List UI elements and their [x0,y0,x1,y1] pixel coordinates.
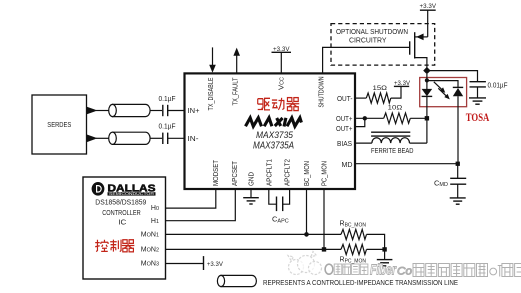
resistor R3 RBC_MON [340,221,367,240]
wire OUT- [356,97,367,99]
wire node down to ferrite [426,118,428,143]
svg-text:+3.3V: +3.3V [207,261,224,268]
svg-text:+3.3V: +3.3V [273,46,290,53]
watermark text band [325,264,333,274]
svg-text:+3.3V: +3.3V [420,3,437,10]
svg-text:OPTIONAL SHUTDOWN: OPTIONAL SHUTDOWN [336,29,408,36]
svg-text:REPRESENTS A CONTROLLED-IMPEDA: REPRESENTS A CONTROLLED-IMPEDANCE TRANSM… [263,280,458,287]
svg-text:RBC_MON: RBC_MON [340,221,367,229]
resistor R2 10 ohm [384,104,411,123]
制 [110,240,121,252]
transmission line T1 [109,104,150,116]
wire OUT+ first [356,117,384,119]
controller U3 DALLAS box [83,177,166,279]
wire IN- from SERDES [87,134,110,142]
驱 [258,99,263,110]
svg-text:+3.3V: +3.3V [394,80,411,87]
op-amp U1 MAX3735 driver box [185,73,356,189]
svg-text:TOSA: TOSA [466,112,490,124]
svg-text:GND: GND [248,172,255,186]
wire SHUTDOWN to gate [323,47,410,73]
svg-text:0.1µF: 0.1µF [159,124,176,131]
svg-text:OUT+: OUT+ [336,116,353,123]
svg-text:MON1: MON1 [141,232,159,239]
ground for C4 [450,198,466,204]
svg-text:10Ω: 10Ω [388,104,403,111]
label 控制器 (controller, red) [95,240,134,252]
optional shutdown circuitry dashed box [331,24,435,66]
label 驱动器 (driver, red) [258,98,299,111]
svg-text:CONTROLLER: CONTROLLER [102,210,141,217]
ground at GND pin [243,189,259,204]
logo MAXIM [246,118,302,127]
svg-text:APCFLT2: APCFLT2 [284,159,291,186]
junction PC_MON [322,247,326,251]
svg-text:MON2: MON2 [141,247,159,254]
wire BIAS [356,142,372,144]
ground for R3 R4 [377,249,393,266]
wire C2 to IN- [168,137,184,139]
svg-text:BIAS: BIAS [337,141,352,148]
logo DALLAS SEMICONDUCTOR [92,182,156,196]
light arrows inside TOSA [434,82,450,100]
wire BC_MON down [306,189,308,234]
ferrite bead FB1 [371,132,414,155]
器 [286,98,299,111]
wire node to bypass cap [427,71,478,82]
legend transmission line symbol [217,275,256,286]
svg-text:TX_FAULT: TX_FAULT [232,77,239,106]
wire PC_MON down [323,189,325,249]
wire ferrite to node [410,142,427,144]
wire IN+ from SERDES [87,107,110,115]
node junction diamond [423,67,430,74]
SERDES block U2 [32,95,87,154]
svg-text:Co: Co [397,266,412,278]
transmission line T2 [109,132,150,144]
svg-text:APCFLT1: APCFLT1 [266,159,273,186]
wire R3 to ground node [367,234,385,249]
wire MON1 [166,233,341,235]
svg-text:RPC_MON: RPC_MON [340,257,367,265]
svg-text:IC: IC [118,219,126,226]
wire T1 to C1 [150,110,162,112]
wire R4 to ground node [367,248,385,250]
svg-text:15Ω: 15Ω [373,85,388,92]
power +3.3V at R1 [394,80,411,87]
svg-text:MD: MD [342,162,353,169]
ground for C3 [469,98,486,104]
capacitor C3 0.01uF [470,82,508,98]
wire R1 to +3.3V [391,86,401,98]
svg-text:IN+: IN+ [188,108,200,115]
capacitor C5 CAPC between APCFLT1/2 [269,189,290,224]
wire T2 to C2 [150,137,162,139]
svg-text:TX_DISABLE: TX_DISABLE [208,77,215,110]
svg-text:PC_MON: PC_MON [322,161,329,186]
器 [122,240,135,252]
svg-text:CIRCUITRY: CIRCUITRY [349,38,387,45]
svg-text:0.01µF: 0.01µF [488,83,508,90]
resistor R1 15 ohm [366,85,391,103]
svg-text:SHUTDOWN: SHUTDOWN [318,77,325,108]
junction MD node [456,162,460,166]
svg-text:MODSET: MODSET [213,159,220,186]
junction OUT+ [363,116,367,120]
svg-text:IN-: IN- [188,136,200,143]
power +3.3V at MON3 [204,256,224,270]
photodiode D2 [453,87,463,163]
svg-text:Fiber: Fiber [370,263,397,279]
power +3.3V at VCC [272,46,292,73]
svg-text:APCSET: APCSET [232,160,239,186]
capacitor C2 0.1uF [159,124,176,144]
wire TX_DISABLE stub with arrow into chip [209,47,216,72]
capacitor C4 CMD [434,164,466,198]
svg-text:VCC: VCC [279,77,286,90]
svg-text:BC_MON: BC_MON [304,161,311,186]
laser diode D1 [422,74,433,118]
动 [272,98,284,110]
控 [95,240,100,252]
wire MD [356,163,458,165]
watermark logo cat [288,252,322,275]
junction node laser cathode [425,116,429,120]
junction ground node [382,247,386,251]
power +3.3V top right [420,3,437,10]
transistor Q1 PMOS [410,10,428,70]
svg-text:DS1858/DS1859: DS1858/DS1859 [95,199,146,206]
svg-text:OUT-: OUT- [337,96,353,103]
resistor R4 RPC_MON [340,244,367,264]
wire TOSA internal to photodiode [427,81,458,88]
svg-text:0.1µF: 0.1µF [159,96,176,103]
wire MON2 [166,248,341,250]
wire APCSET to H1 [166,189,236,221]
svg-text:FERRITE BEAD: FERRITE BEAD [371,148,414,155]
svg-text:MAX3735A: MAX3735A [253,140,294,151]
wire R2 to node [410,117,427,119]
wire OUT+ second tie [356,118,365,126]
capacitor C1 0.1uF [159,96,176,116]
junction BC_MON [304,232,309,237]
wire C1 to IN+ [168,110,184,112]
svg-text:SERDES: SERDES [47,122,71,129]
TOSA red box [420,78,467,107]
svg-text:MON3: MON3 [141,261,159,268]
svg-text:H1: H1 [151,218,159,225]
node dot inside TOSA top [425,78,429,82]
wire MON3 to +3.3V [166,263,204,265]
svg-text:H0: H0 [151,205,159,212]
wire MODSET to H0 [166,189,216,208]
svg-text:OUT+: OUT+ [336,126,353,133]
wire TX_FAULT stub with arrow out [233,48,240,74]
svg-text:SEMICONDUCTOR: SEMICONDUCTOR [109,192,155,196]
